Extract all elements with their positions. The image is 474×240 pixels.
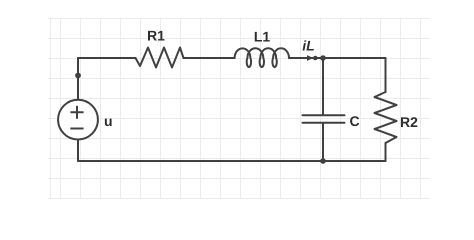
voltage source U circle xyxy=(58,100,98,140)
label L1 xyxy=(255,32,270,42)
wire source top lead xyxy=(77,58,79,100)
resistor R2 xyxy=(375,92,397,143)
voltage source plus sign xyxy=(70,106,83,119)
wire node to R2 top lead xyxy=(385,58,387,92)
label u xyxy=(105,119,112,127)
capacitor C top lead xyxy=(322,58,324,114)
wire source bottom lead xyxy=(77,140,79,162)
label R1 xyxy=(148,31,165,41)
wire R1 to L1 xyxy=(184,57,235,59)
label C xyxy=(350,116,359,126)
wire L1 to node xyxy=(289,57,386,59)
label R2 xyxy=(401,117,417,127)
inductor L1 xyxy=(235,48,289,67)
current arrow iL xyxy=(307,55,313,61)
wire R2 bottom lead xyxy=(385,143,387,161)
junction node bottom (C branch) xyxy=(320,158,326,164)
junction node top (C branch) xyxy=(320,55,326,61)
capacitor C plates xyxy=(303,115,345,123)
current arrow dot xyxy=(313,56,318,61)
wire bottom xyxy=(78,160,386,162)
voltage source minus sign xyxy=(70,128,83,130)
wire top-left horizontal xyxy=(78,57,136,59)
junction dot source top xyxy=(75,73,81,79)
resistor R1 xyxy=(136,48,184,68)
capacitor C bottom lead xyxy=(322,124,324,161)
label iL xyxy=(303,40,314,50)
